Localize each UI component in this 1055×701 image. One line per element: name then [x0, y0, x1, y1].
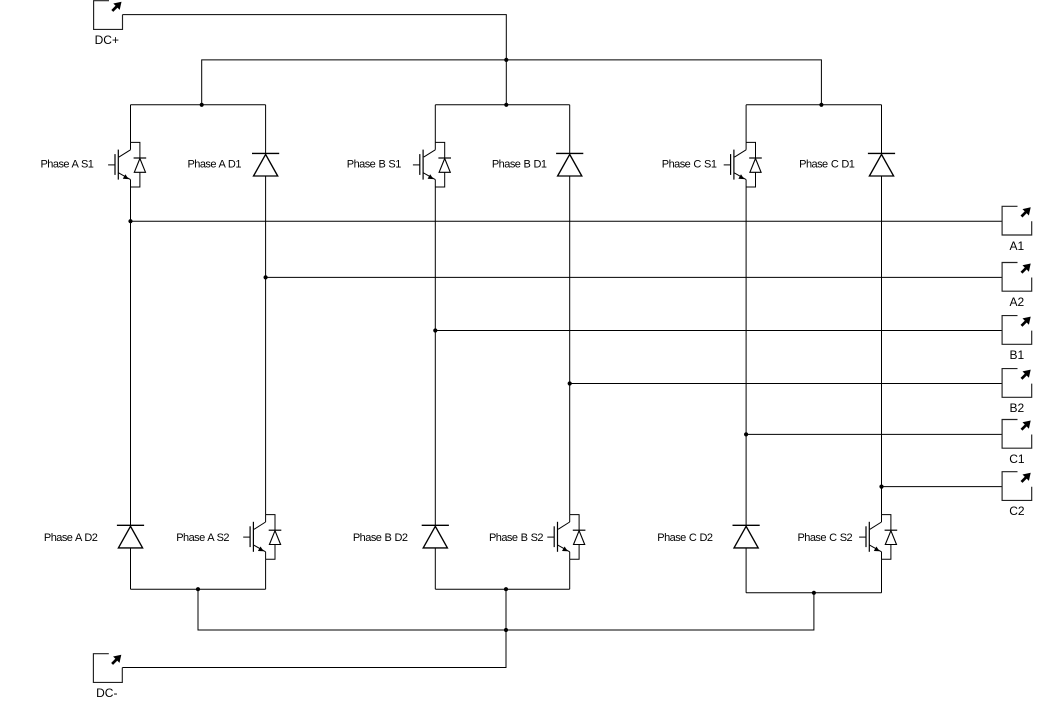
- svg-text:Phase B D1: Phase B D1: [492, 159, 547, 171]
- wire output A2: [266, 276, 1003, 278]
- junction dot phase B top: [504, 103, 508, 107]
- svg-text:Phase C S2: Phase C S2: [797, 532, 852, 544]
- wire phase A D1 cathode: [265, 105, 267, 154]
- diode Phase A D2: [117, 524, 144, 526]
- svg-text:B1: B1: [1010, 348, 1025, 362]
- connector DC-: [93, 654, 122, 683]
- junction dot phase B bottom: [504, 587, 508, 591]
- wire phase C top rail: [746, 104, 881, 106]
- junction dot phase A top: [200, 103, 204, 107]
- diode Phase A D1: [252, 152, 279, 154]
- wire phase A top rail: [131, 104, 266, 106]
- junction dot B1 tap: [433, 328, 437, 332]
- wire phase A left mid: [130, 187, 132, 525]
- wire phase B S1 collector: [434, 105, 436, 143]
- svg-text:DC-: DC-: [96, 686, 117, 700]
- junction dot phase C bottom: [812, 591, 816, 595]
- connector B1: [1002, 316, 1032, 345]
- wire phase B left mid: [434, 187, 436, 525]
- wire phase B D1 cathode: [569, 105, 571, 154]
- wire phase B top rail: [435, 104, 569, 106]
- top DC bus: [202, 60, 822, 105]
- wire output A1: [131, 220, 1003, 222]
- wire phase A D2 anode: [130, 548, 132, 589]
- diode Phase C D1: [868, 152, 895, 154]
- junction dot DC+ bus: [504, 58, 508, 62]
- junction dot phase C top: [819, 103, 823, 107]
- svg-text:B2: B2: [1010, 401, 1025, 415]
- svg-text:Phase C D1: Phase C D1: [799, 159, 855, 171]
- diode Phase C D2: [733, 524, 760, 526]
- wire phase C S2 emitter: [881, 559, 883, 593]
- wire phase A right mid: [265, 176, 267, 515]
- wire output B2: [570, 383, 1002, 385]
- wire top bus drop phase B: [505, 60, 507, 105]
- svg-text:C2: C2: [1009, 504, 1025, 518]
- svg-text:Phase A S2: Phase A S2: [176, 532, 229, 544]
- svg-text:DC+: DC+: [95, 33, 119, 47]
- junction dot DC- bus: [504, 628, 508, 632]
- transistor Phase B S2 (IGBT): [570, 515, 579, 530]
- connector A2: [1002, 263, 1032, 292]
- diode Phase B D1: [556, 152, 583, 154]
- wire phase B bottom rail: [435, 588, 569, 590]
- connector DC+: [94, 1, 123, 30]
- svg-text:C1: C1: [1009, 452, 1025, 466]
- wire phase A S2 emitter: [265, 559, 267, 589]
- transistor Phase C S2 (IGBT): [882, 515, 891, 530]
- wire output C2: [882, 486, 1003, 488]
- wire phase B S2 emitter: [569, 559, 571, 589]
- svg-text:A2: A2: [1010, 295, 1025, 309]
- diode Phase B D2: [422, 524, 449, 526]
- svg-text:Phase B S2: Phase B S2: [489, 532, 543, 544]
- svg-text:A1: A1: [1010, 239, 1025, 253]
- junction dot A1 tap: [128, 219, 132, 223]
- svg-text:Phase B S1: Phase B S1: [347, 159, 401, 171]
- connector C2: [1002, 472, 1032, 501]
- transistor Phase A S1 (IGBT): [131, 142, 140, 157]
- connector B2: [1002, 369, 1032, 398]
- wire phase B right mid: [569, 176, 571, 515]
- junction dot C1 tap: [744, 432, 748, 436]
- wire DC- to bottom bus: [122, 630, 506, 668]
- wire phase A S1 collector: [130, 105, 132, 143]
- svg-text:Phase C D2: Phase C D2: [657, 532, 713, 544]
- wire phase C left mid: [745, 187, 747, 525]
- transistor Phase B S1 (IGBT): [435, 142, 444, 157]
- wire phase B D2 anode: [434, 548, 436, 589]
- transistor Phase A S2 (IGBT): [266, 515, 275, 530]
- wire output B1: [435, 330, 1002, 332]
- connector A1: [1002, 206, 1032, 235]
- junction dot B2 tap: [568, 381, 572, 385]
- wire phase A bottom rail: [131, 588, 266, 590]
- wire phase C D1 cathode: [881, 105, 883, 154]
- wire DC+ to top bus: [123, 15, 507, 60]
- junction dot phase A bottom: [196, 587, 200, 591]
- svg-text:Phase A S1: Phase A S1: [41, 159, 94, 171]
- wire phase C right mid: [881, 176, 883, 515]
- wire phase C S1 collector: [745, 105, 747, 143]
- svg-text:Phase A D2: Phase A D2: [44, 532, 98, 544]
- wire phase C bottom rail: [746, 592, 881, 594]
- svg-text:Phase A D1: Phase A D1: [188, 159, 242, 171]
- wire bottom drop phase B: [505, 589, 507, 630]
- junction dot A2 tap: [264, 275, 268, 279]
- svg-text:Phase B D2: Phase B D2: [353, 532, 408, 544]
- connector C1: [1002, 420, 1032, 449]
- bottom DC bus: [198, 589, 814, 630]
- svg-text:Phase C S1: Phase C S1: [662, 159, 717, 171]
- wire output C1: [746, 433, 1002, 435]
- junction dot C2 tap: [879, 485, 883, 489]
- transistor Phase C S1 (IGBT): [746, 142, 755, 157]
- wire phase C D2 anode: [745, 548, 747, 593]
